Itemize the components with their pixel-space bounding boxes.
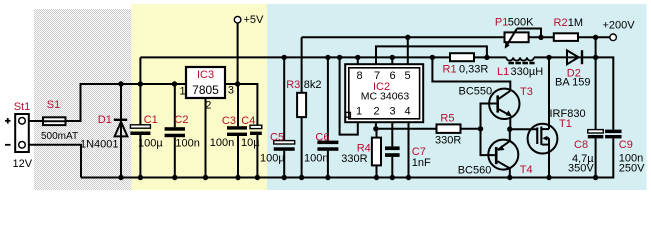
junction D1 on ground rail xyxy=(118,175,123,180)
capacitor C5 xyxy=(274,141,295,151)
svg-text:4: 4 xyxy=(404,106,410,118)
svg-text:1nF: 1nF xyxy=(412,157,431,169)
svg-text:5: 5 xyxy=(404,70,410,82)
wire fuse to corner and input rail riser xyxy=(66,84,186,121)
wire riser from input rail to 12V top rail xyxy=(139,57,141,84)
junction C6 on 12V rail xyxy=(325,55,330,60)
junction C5 on 12V rail xyxy=(282,55,287,60)
wire IC2 pin 6 stub xyxy=(391,57,393,64)
svg-text:T3: T3 xyxy=(520,86,533,98)
junction IC3 pin2 on ground rail xyxy=(203,175,208,180)
junction C4 on ground rail xyxy=(255,175,260,180)
wire T3 emitter down xyxy=(509,117,511,129)
svg-text:0,33R: 0,33R xyxy=(459,64,488,76)
junction R3 on ground rail xyxy=(299,175,304,180)
wire C6 top xyxy=(327,57,329,140)
svg-text:C4: C4 xyxy=(241,115,255,127)
svg-text:7805: 7805 xyxy=(192,83,219,97)
terminal +5V xyxy=(234,16,241,23)
capacitor C3 xyxy=(227,126,247,136)
wire P1 right to R2 left xyxy=(529,36,554,38)
junction T3 collector branch on 12V rail xyxy=(430,55,435,60)
svg-text:R1: R1 xyxy=(443,64,457,76)
svg-text:100µ: 100µ xyxy=(260,153,285,165)
wire St1 plus to fuse S1 xyxy=(26,120,43,122)
svg-text:6: 6 xyxy=(389,70,395,82)
junction P1 wiper on feedback line xyxy=(538,35,543,40)
svg-text:R2: R2 xyxy=(554,17,568,29)
junction IC2 pin1 on 12V rail xyxy=(337,55,342,60)
svg-text:100µ: 100µ xyxy=(138,138,163,150)
svg-text:C2: C2 xyxy=(174,114,188,126)
svg-text:St1: St1 xyxy=(14,101,31,113)
wire C2 bottom xyxy=(174,137,176,177)
wire IC2 pin 5 route to feedback line xyxy=(407,37,409,64)
svg-text:1: 1 xyxy=(180,86,186,98)
capacitor C7 xyxy=(385,146,400,157)
junction IC2 pin5 on feedback line xyxy=(405,35,410,40)
wire C8 top xyxy=(595,57,597,129)
svg-text:330R: 330R xyxy=(341,153,367,165)
wire R3 bottom xyxy=(301,117,303,177)
wire T1 source xyxy=(548,138,550,177)
wire C4 bottom xyxy=(256,135,258,178)
svg-text:C5: C5 xyxy=(270,132,284,144)
svg-text:L1: L1 xyxy=(497,66,509,78)
voltage regulator IC3 7805 xyxy=(186,67,225,98)
wire R5 to base bus xyxy=(461,128,481,130)
junction R2 to output terminal xyxy=(593,35,598,40)
gray input region background xyxy=(34,9,132,190)
capacitor C1 xyxy=(130,125,150,135)
wire T4 collector to ground xyxy=(509,167,511,178)
svg-text:BC550: BC550 xyxy=(459,86,493,98)
fuse S1 xyxy=(43,117,66,125)
junction C1 on ground rail xyxy=(138,175,143,180)
wire C1 top xyxy=(139,84,141,125)
junction C2 on ground rail xyxy=(172,175,177,180)
diode D1 1N4001 xyxy=(114,119,128,137)
wire IC3 pin 2 to ground xyxy=(205,99,207,178)
wire IC2 pin 4 to ground xyxy=(408,122,410,177)
svg-text:T1: T1 xyxy=(559,118,572,130)
wire IC2 pin 7 route to R1 right xyxy=(376,46,487,64)
svg-text:500K: 500K xyxy=(508,17,534,29)
capacitor C9 xyxy=(605,130,621,139)
wire IC2 pin 1 route to 12V rail xyxy=(340,57,358,134)
wire T4 emitter from node xyxy=(509,129,511,141)
svg-text:T4: T4 xyxy=(520,164,533,176)
svg-text:100n: 100n xyxy=(210,137,234,149)
svg-text:100n: 100n xyxy=(175,138,199,150)
wire C1 bottom xyxy=(139,135,141,178)
junction IC2 pin8 on 12V rail xyxy=(355,55,360,60)
resistor R5 xyxy=(437,124,461,132)
svg-text:+200V: +200V xyxy=(603,20,636,32)
wire 12V top rail left of R1 xyxy=(140,56,450,58)
svg-text:10µ: 10µ xyxy=(241,137,260,149)
svg-text:100n: 100n xyxy=(304,153,328,165)
inductor L1 xyxy=(506,57,534,64)
svg-text:C8: C8 xyxy=(574,139,588,151)
cyan converter region background xyxy=(267,4,647,190)
resistor R2 xyxy=(554,33,578,41)
potentiometer P1 xyxy=(505,29,529,49)
junction T1 source on ground rail xyxy=(546,175,551,180)
svg-text:350V: 350V xyxy=(568,163,594,175)
yellow 5V regulator region background xyxy=(132,4,268,190)
svg-text:BA 159: BA 159 xyxy=(555,77,590,89)
wire +5V terminal drop xyxy=(237,23,239,84)
svg-text:3: 3 xyxy=(389,106,395,118)
wire IC2 pin 8 stub xyxy=(357,57,359,64)
resistor R4 xyxy=(372,138,381,166)
wire T1 drain xyxy=(548,57,550,129)
IC2 MC34063 box xyxy=(345,64,423,122)
svg-text:500mAT: 500mAT xyxy=(41,131,78,142)
svg-text:C6: C6 xyxy=(315,132,329,144)
wire gate line to T1 xyxy=(510,128,538,130)
wire C6 bottom xyxy=(327,151,329,178)
svg-text:250V: 250V xyxy=(619,163,645,175)
junction C2 on input rail xyxy=(172,81,177,86)
wire feedback line xyxy=(302,36,505,38)
svg-text:12V: 12V xyxy=(13,158,33,170)
wire R2 node down to output line xyxy=(595,37,597,57)
wire R2 right to output terminal xyxy=(578,36,610,38)
wire 12V rail after L1 to C9 corner xyxy=(534,57,613,129)
svg-text:7: 7 xyxy=(374,70,380,82)
wire C8 bottom xyxy=(595,138,597,177)
wire St1 minus down to ground rail xyxy=(25,145,81,178)
junction IC2 pin7 after R1 xyxy=(484,55,489,60)
wire R3 top to feedback line xyxy=(301,37,303,93)
junction T1 drain at L1 output xyxy=(546,55,551,60)
capacitor C6 xyxy=(317,141,338,151)
resistor R3 xyxy=(297,93,306,117)
wire T3 T4 base bus xyxy=(481,104,497,156)
svg-text:D1: D1 xyxy=(98,114,112,126)
wire D1 vertical xyxy=(120,84,122,178)
transistor T4 BC560 xyxy=(488,140,518,170)
svg-text:R3: R3 xyxy=(286,79,300,91)
junction T3 T4 emitters gate node xyxy=(507,127,512,132)
wire pin2 node to R5 xyxy=(376,128,437,130)
wire C2 top xyxy=(174,84,176,127)
MOSFET T1 IRF830 xyxy=(528,124,558,154)
junction C5 on ground rail xyxy=(282,175,287,180)
svg-text:S1: S1 xyxy=(47,99,60,111)
svg-text:C3: C3 xyxy=(222,115,236,127)
junction +5V on IC3 pin3 rail xyxy=(235,81,240,86)
junction R5 on T3 T4 base bus xyxy=(478,126,483,131)
wire C5 bottom xyxy=(283,151,285,178)
svg-text:8k2: 8k2 xyxy=(304,79,322,91)
wire 12V top rail right of R1 to C9 corner xyxy=(474,56,506,58)
wire P1 wiper xyxy=(517,29,541,38)
wire IC3 pin 3 rail to C4 xyxy=(226,84,257,125)
capacitor C8 xyxy=(588,130,604,139)
capacitor C4 xyxy=(250,125,262,135)
svg-text:2: 2 xyxy=(205,100,211,112)
terminal +200V xyxy=(610,34,617,41)
svg-text:1N4001: 1N4001 xyxy=(80,139,119,151)
svg-text:BC560: BC560 xyxy=(458,165,492,177)
junction C3 on ground rail xyxy=(235,175,240,180)
junction C7 on ground rail xyxy=(390,175,395,180)
wire IC2 pin 2 stub xyxy=(375,122,377,129)
wire C7 bottom xyxy=(391,157,393,178)
wire C5 top xyxy=(283,57,285,140)
diode D2 BA159 xyxy=(567,50,583,64)
junction IC2 pin6 on 12V rail xyxy=(390,55,395,60)
capacitor C2 xyxy=(165,127,185,137)
svg-text:MC 34063: MC 34063 xyxy=(361,91,410,103)
svg-text:8: 8 xyxy=(356,70,362,82)
svg-text:R5: R5 xyxy=(440,113,454,125)
transistor T3 BC550 xyxy=(489,89,519,119)
svg-text:330R: 330R xyxy=(435,135,461,147)
wire ground rail xyxy=(81,138,613,177)
junction C8 on ground rail xyxy=(593,175,598,180)
wire R4 bottom xyxy=(376,165,378,177)
junction D1 top on input rail xyxy=(118,81,123,86)
junction C1 riser on input rail xyxy=(138,81,143,86)
junction R4 on ground rail xyxy=(374,175,379,180)
junction T4 collector on ground rail xyxy=(507,175,512,180)
svg-text:+5V: +5V xyxy=(244,14,265,26)
wire C3 bottom xyxy=(237,136,239,178)
wire C3 top xyxy=(237,84,239,126)
svg-text:C9: C9 xyxy=(619,139,633,151)
junction C6 on ground rail xyxy=(325,175,330,180)
svg-text:330µH: 330µH xyxy=(511,66,544,78)
connector St1 xyxy=(5,114,29,152)
svg-text:C1: C1 xyxy=(144,114,158,126)
junction C8 R2 on output line xyxy=(593,55,598,60)
resistor R1 xyxy=(450,53,474,61)
wire IC2 pin 3 to C7 xyxy=(391,122,393,146)
wire T3 collector route from 12V rail xyxy=(432,57,510,91)
svg-text:P1: P1 xyxy=(495,17,508,29)
junction IC2 pin2 R4 R5 node xyxy=(373,126,378,131)
svg-text:1: 1 xyxy=(356,106,362,118)
svg-text:2: 2 xyxy=(373,106,379,118)
junction IC2 pin4 on ground rail xyxy=(406,175,411,180)
svg-text:IC3: IC3 xyxy=(197,69,214,81)
svg-text:1M: 1M xyxy=(568,17,583,29)
svg-text:3: 3 xyxy=(228,85,234,97)
wire R4 top xyxy=(376,129,378,138)
